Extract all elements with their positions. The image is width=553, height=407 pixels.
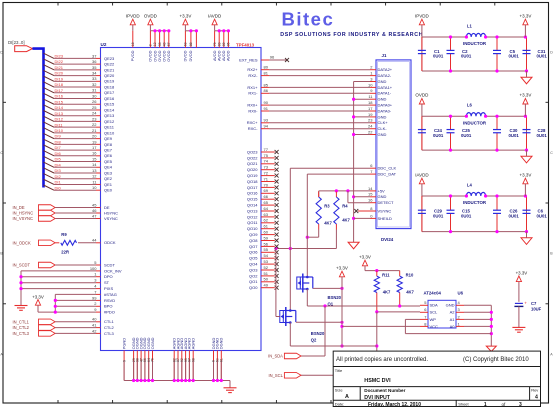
svg-text:VSYNC: VSYNC (378, 208, 392, 213)
svg-text:QE19: QE19 (104, 79, 115, 84)
svg-text:17: 17 (368, 106, 373, 111)
svg-text:22: 22 (92, 122, 97, 127)
svg-text:C7: C7 (531, 301, 537, 306)
svg-text:23: 23 (92, 116, 97, 121)
svg-text:60: 60 (264, 230, 269, 235)
svg-text:QE16: QE16 (104, 96, 115, 101)
svg-text:QE10: QE10 (104, 130, 115, 135)
svg-text:+3.3V: +3.3V (519, 172, 531, 177)
svg-text:R3: R3 (324, 204, 330, 209)
svg-text:22R: 22R (61, 250, 69, 255)
svg-text:26: 26 (92, 99, 97, 104)
svg-text:D: D (0, 51, 3, 55)
svg-text:52: 52 (264, 265, 269, 270)
svg-text:Friday, March 12, 2010: Friday, March 12, 2010 (368, 402, 421, 407)
svg-text:DI[23..0]: DI[23..0] (8, 40, 25, 45)
svg-text:15: 15 (92, 156, 97, 161)
svg-text:Bitec: Bitec (282, 9, 335, 30)
svg-text:56: 56 (264, 241, 269, 246)
svg-text:QO13: QO13 (247, 208, 258, 213)
svg-text:GND: GND (378, 132, 387, 137)
svg-text:QO14: QO14 (247, 203, 258, 208)
svg-text:IN_CTL2: IN_CTL2 (13, 325, 30, 330)
svg-text:47: 47 (92, 213, 97, 218)
svg-text:81: 81 (264, 71, 269, 76)
svg-text:DSP SOLUTIONS FOR INDUSTRY & R: DSP SOLUTIONS FOR INDUSTRY & RESEARCH (280, 32, 423, 38)
svg-text:4K7: 4K7 (406, 289, 414, 294)
svg-text:EXT_RES: EXT_RES (239, 57, 258, 62)
svg-text:Rev: Rev (531, 388, 538, 393)
svg-text:WP: WP (430, 317, 437, 322)
svg-text:Date:: Date: (335, 402, 345, 407)
svg-text:DVI24: DVI24 (381, 237, 394, 242)
svg-text:QE6: QE6 (104, 153, 113, 158)
svg-text:DI20: DI20 (55, 71, 64, 76)
svg-text:QO19: QO19 (247, 173, 258, 178)
svg-text:RSVD: RSVD (104, 298, 115, 303)
svg-text:0U01: 0U01 (509, 133, 520, 138)
svg-text:QO12: QO12 (247, 214, 258, 219)
svg-text:98: 98 (191, 358, 195, 362)
svg-text:DI5: DI5 (55, 157, 62, 162)
svg-text:4K7: 4K7 (342, 218, 350, 223)
svg-text:QE21: QE21 (104, 67, 115, 72)
svg-text:IN_CTL1: IN_CTL1 (13, 319, 30, 324)
svg-text:DI1: DI1 (55, 180, 62, 185)
svg-text:99: 99 (92, 295, 97, 300)
svg-text:42: 42 (92, 328, 97, 333)
svg-text:A1: A1 (450, 317, 456, 322)
svg-text:+3.3V: +3.3V (179, 13, 191, 18)
svg-text:DI18: DI18 (55, 82, 64, 87)
svg-text:IN_VSYNC: IN_VSYNC (13, 216, 34, 221)
svg-text:44: 44 (92, 238, 97, 243)
svg-text:DI11: DI11 (55, 122, 64, 127)
svg-text:24: 24 (368, 124, 373, 129)
svg-text:30: 30 (92, 93, 97, 98)
svg-text:66: 66 (264, 194, 269, 199)
svg-text:TPF4013: TPF4013 (236, 43, 255, 48)
svg-text:QE18: QE18 (104, 84, 115, 89)
svg-text:OCK_INV: OCK_INV (104, 268, 122, 273)
svg-text:PGND: PGND (121, 338, 126, 349)
svg-text:QE4: QE4 (104, 165, 113, 170)
svg-text:17: 17 (92, 145, 97, 150)
svg-text:QO5: QO5 (249, 256, 258, 261)
svg-text:IN_HSYNC: IN_HSYNC (13, 211, 34, 216)
svg-text:DVDD: DVDD (188, 50, 193, 61)
svg-text:62: 62 (264, 218, 269, 223)
svg-text:OVDD: OVDD (166, 50, 171, 61)
svg-text:34: 34 (92, 70, 97, 75)
svg-text:0U01: 0U01 (537, 213, 548, 218)
svg-text:+5V: +5V (378, 188, 386, 193)
svg-text:DI8: DI8 (55, 139, 62, 144)
svg-text:QO7: QO7 (249, 244, 258, 249)
svg-text:RX0-: RX0- (248, 108, 258, 113)
svg-text:54: 54 (264, 253, 269, 258)
svg-text:69: 69 (264, 188, 269, 193)
svg-text:RX2+: RX2+ (247, 67, 258, 72)
svg-text:0U01: 0U01 (509, 54, 520, 59)
svg-text:DDC_CLK: DDC_CLK (378, 166, 397, 171)
svg-text:0U01: 0U01 (433, 133, 444, 138)
svg-text:U2: U2 (101, 42, 107, 47)
svg-text:QE23: QE23 (104, 56, 115, 61)
svg-text:IAVDD: IAVDD (415, 172, 429, 177)
svg-text:QE0: QE0 (104, 188, 113, 193)
svg-text:DI2: DI2 (55, 174, 62, 179)
svg-text:14: 14 (92, 162, 97, 167)
svg-text:0U01: 0U01 (433, 54, 444, 59)
svg-text:CLK+: CLK+ (378, 120, 389, 125)
svg-text:45: 45 (92, 202, 97, 207)
svg-text:QO15: QO15 (247, 197, 258, 202)
svg-text:+3.3V: +3.3V (519, 93, 531, 98)
svg-text:QO20: QO20 (247, 167, 258, 172)
svg-text:QO22: QO22 (247, 155, 258, 160)
svg-text:13: 13 (92, 168, 97, 173)
svg-text:QE7: QE7 (104, 147, 113, 152)
svg-text:#STAG: #STAG (104, 292, 117, 297)
svg-text:DI10: DI10 (55, 128, 64, 133)
svg-text:21: 21 (92, 128, 97, 133)
svg-text:INDUCTOR: INDUCTOR (463, 41, 487, 46)
svg-text:QO9: QO9 (249, 232, 258, 237)
svg-text:DATA1+: DATA1+ (378, 85, 393, 90)
svg-text:AVDD: AVDD (226, 50, 231, 61)
svg-text:DI23: DI23 (55, 54, 64, 59)
svg-text:DATA0+: DATA0+ (378, 103, 393, 108)
svg-text:0U01: 0U01 (461, 54, 472, 59)
svg-text:DATA1-: DATA1- (378, 91, 392, 96)
svg-text:RX2-: RX2- (248, 73, 258, 78)
svg-text:DVDD: DVDD (183, 50, 188, 61)
svg-text:10UF: 10UF (531, 307, 542, 312)
svg-text:SCL: SCL (430, 310, 439, 315)
svg-text:R10: R10 (406, 272, 414, 277)
svg-text:L6: L6 (467, 103, 473, 108)
svg-text:64: 64 (264, 206, 269, 211)
svg-text:DI0: DI0 (55, 185, 62, 190)
svg-text:QO23: QO23 (247, 149, 258, 154)
svg-text:RX1+: RX1+ (247, 85, 258, 90)
svg-text:CTL1: CTL1 (104, 319, 115, 324)
svg-text:31: 31 (92, 88, 97, 93)
svg-text:GND: GND (378, 97, 387, 102)
svg-text:GND: GND (378, 194, 387, 199)
svg-text:IN_SDA: IN_SDA (268, 354, 283, 359)
svg-text:DI3: DI3 (55, 168, 62, 173)
svg-text:DI15: DI15 (55, 99, 64, 104)
svg-text:22: 22 (368, 129, 373, 134)
svg-text:QO10: QO10 (247, 226, 258, 231)
svg-text:18: 18 (368, 100, 373, 105)
svg-text:2: 2 (149, 44, 153, 46)
svg-text:33: 33 (92, 76, 97, 81)
svg-text:QE3: QE3 (104, 170, 113, 175)
svg-text:DVI INPUT: DVI INPUT (364, 395, 390, 401)
svg-text:R4: R4 (342, 204, 348, 209)
svg-text:12: 12 (92, 174, 97, 179)
svg-text:4K7: 4K7 (383, 289, 391, 294)
svg-text:55: 55 (264, 247, 269, 252)
svg-text:DPO: DPO (104, 274, 113, 279)
svg-text:IN_DE: IN_DE (13, 205, 25, 210)
svg-text:71: 71 (264, 176, 269, 181)
svg-text:3: 3 (519, 402, 522, 407)
svg-text:Sheet: Sheet (458, 402, 469, 407)
svg-text:20: 20 (92, 134, 97, 139)
svg-text:RXC+: RXC+ (247, 120, 258, 125)
svg-text:QO21: QO21 (247, 161, 258, 166)
svg-text:HSYNC: HSYNC (104, 210, 118, 215)
svg-text:OGND: OGND (150, 337, 155, 349)
svg-text:DE: DE (104, 205, 110, 210)
svg-text:61: 61 (220, 358, 224, 362)
svg-text:VSYNC: VSYNC (104, 216, 118, 221)
svg-text:QO2: QO2 (249, 273, 258, 278)
svg-text:QE14: QE14 (104, 107, 115, 112)
svg-text:L4: L4 (467, 183, 473, 188)
svg-text:1: 1 (484, 402, 487, 407)
svg-text:R11: R11 (382, 272, 390, 277)
svg-text:QE22: QE22 (104, 62, 115, 67)
svg-text:50: 50 (264, 277, 269, 282)
svg-text:J1: J1 (382, 53, 387, 58)
svg-text:QE11: QE11 (104, 125, 115, 130)
svg-text:49: 49 (264, 283, 269, 288)
svg-text:SCDT: SCDT (104, 262, 115, 267)
svg-text:53: 53 (264, 259, 269, 264)
svg-text:61: 61 (264, 224, 269, 229)
svg-text:10: 10 (368, 82, 373, 87)
svg-text:QO0: QO0 (249, 285, 258, 290)
svg-text:46: 46 (92, 208, 97, 213)
svg-text:DI7: DI7 (55, 145, 62, 150)
svg-text:RXC-: RXC- (248, 126, 258, 131)
svg-text:32: 32 (92, 82, 97, 87)
svg-text:95: 95 (227, 42, 231, 46)
svg-text:QO16: QO16 (247, 191, 258, 196)
svg-text:QO6: QO6 (249, 250, 258, 255)
svg-text:40: 40 (92, 317, 97, 322)
svg-text:75: 75 (264, 153, 269, 158)
svg-text:33: 33 (158, 42, 162, 46)
svg-text:23: 23 (368, 118, 373, 123)
svg-text:37: 37 (92, 53, 97, 58)
svg-text:INDUCTOR: INDUCTOR (463, 200, 487, 205)
svg-text:+3.3V: +3.3V (359, 254, 371, 259)
svg-text:+3.3V: +3.3V (516, 271, 528, 276)
svg-text:+3.3V: +3.3V (32, 294, 44, 299)
svg-text:89: 89 (222, 42, 226, 46)
svg-text:0U01: 0U01 (537, 133, 548, 138)
svg-text:57: 57 (167, 42, 171, 46)
svg-text:SHEILD: SHEILD (378, 216, 393, 221)
svg-text:QE1: QE1 (104, 182, 113, 187)
svg-text:CTL3: CTL3 (104, 331, 115, 336)
svg-text:91: 91 (264, 106, 269, 111)
svg-text:88: 88 (189, 42, 193, 46)
svg-text:4: 4 (535, 394, 538, 400)
svg-text:IN_ODCK: IN_ODCK (13, 240, 31, 245)
svg-text:QO11: QO11 (247, 220, 258, 225)
svg-text:HSMC DVI: HSMC DVI (364, 378, 391, 384)
svg-text:DI12: DI12 (55, 117, 64, 122)
svg-text:10: 10 (92, 185, 97, 190)
svg-text:(C) Copyright Bitec 2010: (C) Copyright Bitec 2010 (463, 357, 529, 363)
svg-text:C: C (0, 151, 3, 155)
svg-text:51: 51 (264, 271, 269, 276)
svg-text:DATA2+: DATA2+ (378, 67, 393, 72)
svg-text:QE2: QE2 (104, 176, 113, 181)
svg-text:96: 96 (270, 55, 275, 60)
svg-text:DI22: DI22 (55, 59, 64, 64)
svg-text:Q2: Q2 (311, 338, 317, 343)
svg-text:25: 25 (92, 105, 97, 110)
svg-text:0U01: 0U01 (509, 213, 520, 218)
svg-text:DETECT: DETECT (378, 200, 395, 205)
svg-text:59: 59 (264, 235, 269, 240)
svg-text:DI4: DI4 (55, 162, 62, 167)
svg-text:QO4: QO4 (249, 262, 258, 267)
svg-text:43: 43 (162, 42, 166, 46)
svg-text:GND: GND (378, 114, 387, 119)
svg-text:15: 15 (368, 192, 373, 197)
svg-text:SDA: SDA (430, 303, 439, 308)
svg-text:QO1: QO1 (249, 279, 258, 284)
svg-text:QE20: QE20 (104, 73, 115, 78)
svg-text:CTL2: CTL2 (104, 325, 115, 330)
svg-text:U6: U6 (458, 290, 464, 295)
svg-text:QO3: QO3 (249, 267, 258, 272)
svg-text:0U01: 0U01 (433, 213, 444, 218)
svg-text:L1: L1 (467, 24, 473, 29)
svg-text:BSN20: BSN20 (311, 331, 325, 336)
svg-text:QE12: QE12 (104, 119, 115, 124)
svg-text:A2: A2 (450, 310, 456, 315)
svg-text:QE9: QE9 (104, 136, 113, 141)
svg-text:Title: Title (335, 368, 343, 373)
svg-text:76: 76 (151, 358, 155, 362)
svg-text:DI13: DI13 (55, 111, 64, 116)
svg-text:83: 83 (217, 42, 221, 46)
svg-text:CLK-: CLK- (378, 126, 388, 131)
svg-text:#PDO: #PDO (104, 310, 115, 315)
svg-text:BPO: BPO (104, 304, 112, 309)
svg-text:IN_CTL3: IN_CTL3 (13, 331, 30, 336)
svg-text:12: 12 (153, 42, 157, 46)
svg-text:QO8: QO8 (249, 238, 258, 243)
svg-text:+3.3V: +3.3V (336, 265, 348, 270)
svg-text:AT24c04: AT24c04 (424, 290, 442, 295)
svg-text:All printed copies are uncontr: All printed copies are uncontrolled. (336, 357, 428, 363)
svg-text:GND: GND (446, 303, 455, 308)
svg-text:4K7: 4K7 (324, 221, 332, 226)
svg-text:100: 100 (90, 266, 97, 271)
svg-text:70: 70 (264, 182, 269, 187)
svg-text:GND: GND (378, 79, 387, 84)
svg-text:IPVDD: IPVDD (126, 13, 141, 18)
svg-text:93: 93 (264, 118, 269, 123)
svg-text:BSN20: BSN20 (328, 295, 342, 300)
svg-text:72: 72 (264, 171, 269, 176)
svg-text:86: 86 (264, 88, 269, 93)
svg-text:0U01: 0U01 (537, 54, 548, 59)
svg-text:94: 94 (264, 124, 269, 129)
svg-text:DI14: DI14 (55, 105, 64, 110)
svg-text:OVDD: OVDD (415, 93, 429, 98)
svg-text:ODCK: ODCK (104, 240, 116, 245)
svg-text:ST: ST (104, 280, 110, 285)
svg-text:QE13: QE13 (104, 113, 115, 118)
svg-text:R9: R9 (61, 232, 67, 237)
svg-text:DI6: DI6 (55, 151, 62, 156)
svg-text:DI19: DI19 (55, 76, 64, 81)
svg-text:36: 36 (92, 59, 97, 64)
svg-text:80: 80 (264, 65, 269, 70)
svg-text:A0: A0 (450, 324, 456, 329)
svg-text:RX1-: RX1- (248, 91, 258, 96)
svg-text:VCC: VCC (430, 324, 439, 329)
svg-text:79: 79 (213, 42, 217, 46)
svg-text:DGND: DGND (219, 338, 224, 350)
svg-text:IN_SCDT: IN_SCDT (13, 263, 31, 268)
svg-text:PVDD: PVDD (130, 50, 135, 61)
svg-text:DDC_DAT: DDC_DAT (378, 172, 397, 177)
svg-text:16: 16 (92, 151, 97, 156)
svg-text:65: 65 (264, 200, 269, 205)
svg-text:DI9: DI9 (55, 134, 62, 139)
svg-text:IPVDD: IPVDD (415, 13, 430, 18)
svg-text:90: 90 (264, 100, 269, 105)
svg-text:AGND: AGND (191, 338, 196, 349)
svg-text:QE17: QE17 (104, 90, 115, 95)
svg-text:18: 18 (131, 42, 135, 46)
svg-text:A: A (345, 394, 349, 400)
svg-text:QE5: QE5 (104, 159, 113, 164)
svg-text:Size: Size (335, 388, 344, 393)
svg-text:QE15: QE15 (104, 102, 115, 107)
svg-text:INDUCTOR: INDUCTOR (463, 120, 487, 125)
svg-text:0U01: 0U01 (461, 133, 472, 138)
svg-text:35: 35 (92, 65, 97, 70)
svg-text:77: 77 (264, 147, 269, 152)
svg-text:16: 16 (368, 198, 373, 203)
svg-text:19: 19 (92, 139, 97, 144)
svg-text:DI16: DI16 (55, 94, 64, 99)
svg-text:63: 63 (264, 212, 269, 217)
svg-text:14: 14 (368, 186, 373, 191)
svg-text:DI17: DI17 (55, 88, 64, 93)
svg-text:63: 63 (184, 42, 188, 46)
svg-text:74: 74 (264, 159, 269, 164)
svg-text:+: + (524, 300, 527, 305)
svg-text:+3.3V: +3.3V (519, 13, 531, 18)
svg-text:24: 24 (92, 111, 97, 116)
svg-text:85: 85 (264, 82, 269, 87)
svg-text:0U01: 0U01 (461, 213, 472, 218)
svg-text:41: 41 (92, 323, 97, 328)
svg-text:73: 73 (264, 165, 269, 170)
svg-text:QE8: QE8 (104, 142, 113, 147)
svg-text:19: 19 (368, 112, 373, 117)
svg-text:QO17: QO17 (247, 185, 258, 190)
svg-text:DI21: DI21 (55, 65, 64, 70)
svg-text:DATA2-: DATA2- (378, 73, 392, 78)
svg-text:DATA0-: DATA0- (378, 108, 392, 113)
